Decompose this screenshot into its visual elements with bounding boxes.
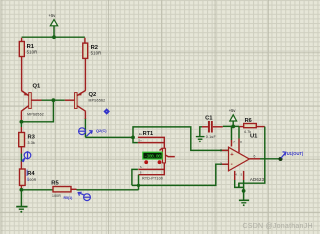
node RTD input junction xyxy=(131,136,135,140)
wire R1 to Q1 emitter xyxy=(21,57,23,91)
power +5v symbol (left) xyxy=(49,13,58,37)
svg-text:RT1: RT1 xyxy=(143,131,154,137)
svg-text:CSDN @JonathanJH: CSDN @JonathanJH xyxy=(243,223,313,230)
node +5v junction xyxy=(231,125,235,129)
node bottom-left junction xyxy=(20,188,24,192)
wire R2 to Q2 emitter xyxy=(84,58,86,90)
wire base drop to collector loop xyxy=(21,100,53,122)
component origin diamond xyxy=(103,108,110,115)
svg-text:3: 3 xyxy=(220,149,222,153)
voltage probe R4(1) xyxy=(22,151,31,162)
ground (op-amp) xyxy=(239,191,249,206)
wire Q1 collector down xyxy=(20,111,22,122)
svg-text:U1: U1 xyxy=(250,133,258,139)
resistor R1 xyxy=(19,42,37,57)
wire R2 top xyxy=(84,38,86,43)
wire pin7 +VS xyxy=(231,126,233,140)
wire base Q1-Q2 xyxy=(42,99,65,101)
svg-text:RTD-PT100: RTD-PT100 xyxy=(142,176,163,180)
wire pin2 stub xyxy=(222,163,229,165)
op-amp U1 AD623 xyxy=(220,140,265,182)
svg-text:-: - xyxy=(231,161,233,168)
node base junction xyxy=(52,98,56,102)
wire S- drop xyxy=(132,169,138,185)
wire bottom run to op-amp -IN xyxy=(132,164,229,185)
capacitor C1 xyxy=(202,115,223,139)
svg-text:2: 2 xyxy=(220,162,222,166)
svg-text:Q2(C): Q2(C) xyxy=(96,128,107,133)
wire node down to S+ xyxy=(133,137,138,142)
svg-text:100R: 100R xyxy=(52,194,61,198)
svg-text:510R: 510R xyxy=(91,51,102,56)
wire +5v rail right xyxy=(223,125,239,127)
voltage probe Q2(C) xyxy=(78,128,107,137)
resistor R2 xyxy=(83,43,102,58)
power +5v symbol (op-amp) xyxy=(229,108,237,126)
svg-text:+5v: +5v xyxy=(229,108,237,113)
wire R1 top xyxy=(21,38,23,42)
wire pin1 RG xyxy=(238,126,240,138)
svg-text:MPS6562: MPS6562 xyxy=(89,99,106,103)
wire Q2 emitter to probe corner xyxy=(84,118,86,137)
svg-text:3.3k: 3.3k xyxy=(28,141,35,145)
resistor R4 xyxy=(20,169,37,185)
node E- junction xyxy=(137,184,140,187)
transistor Q1 xyxy=(21,84,44,117)
svg-text:0.1uF: 0.1uF xyxy=(206,135,217,139)
wire R5 right xyxy=(71,188,77,190)
svg-text:100R: 100R xyxy=(27,178,36,182)
wire top rail xyxy=(22,36,85,38)
svg-text:S+: S+ xyxy=(139,138,143,142)
svg-text:Q2: Q2 xyxy=(89,92,97,98)
svg-text:6: 6 xyxy=(254,155,256,159)
voltage probe U1(OUT) xyxy=(279,151,304,161)
wire R3 to R4 xyxy=(20,147,22,154)
svg-text:R4: R4 xyxy=(27,171,35,177)
transistor Q2 xyxy=(65,90,105,111)
svg-text:S-: S- xyxy=(140,165,143,169)
node REF junction xyxy=(242,189,246,193)
node diode-connection junction xyxy=(20,120,24,124)
wire pin5 REF xyxy=(243,171,245,180)
svg-text:510R: 510R xyxy=(27,50,38,55)
svg-text:Q1: Q1 xyxy=(33,84,42,90)
wire R4 bottom xyxy=(20,185,22,189)
wire pin4 -VS xyxy=(234,171,236,180)
wire node up and across to op-amp xyxy=(133,127,229,150)
wire output pin6 xyxy=(249,158,260,160)
svg-text:E-: E- xyxy=(140,170,143,174)
svg-text:AD623: AD623 xyxy=(250,177,265,182)
ground (C1) xyxy=(196,127,205,142)
voltage probe R5(1) xyxy=(64,192,91,200)
svg-text:R5(1): R5(1) xyxy=(64,196,73,200)
svg-text:U1(OUT): U1(OUT) xyxy=(287,151,304,156)
node top rail junction xyxy=(52,35,56,39)
wire E- drop xyxy=(138,175,140,190)
resistor R5 xyxy=(51,180,71,197)
ground (bottom left) xyxy=(16,190,27,213)
RTD RT1 xyxy=(138,131,175,180)
svg-text:MPS6562: MPS6562 xyxy=(27,112,44,116)
svg-text:C1: C1 xyxy=(205,115,213,121)
resistor R6 xyxy=(239,118,265,134)
wire to R5 xyxy=(21,189,53,191)
svg-text:+5v: +5v xyxy=(49,13,57,18)
svg-text:-300.00: -300.00 xyxy=(144,154,161,160)
wire to R3 xyxy=(20,122,22,127)
wire R6 right down to REF xyxy=(239,127,265,188)
wire pin3 stub xyxy=(222,149,229,151)
resistor R3 xyxy=(19,133,36,147)
svg-text:R3: R3 xyxy=(28,135,36,141)
wire Q2 collector to RTD node xyxy=(85,136,133,138)
svg-text:R5: R5 xyxy=(51,180,59,186)
